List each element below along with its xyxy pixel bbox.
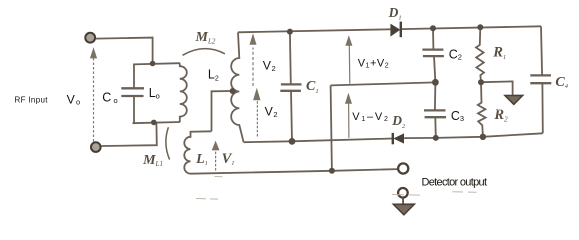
svg-text:V2: V2 xyxy=(263,59,276,73)
svg-text:V1+V2: V1+V2 xyxy=(358,57,389,69)
svg-text:Vo: Vo xyxy=(67,92,81,106)
svg-text:D2: D2 xyxy=(391,113,406,130)
svg-text:ML2: ML2 xyxy=(195,30,216,45)
svg-text:V1: V1 xyxy=(222,151,235,167)
svg-text:L2: L2 xyxy=(208,68,219,83)
svg-text:RF Input: RF Input xyxy=(15,96,49,105)
svg-text:Co: Co xyxy=(102,91,117,105)
svg-text:L1: L1 xyxy=(195,152,208,167)
svg-text:ML1: ML1 xyxy=(142,153,163,168)
svg-text:C2: C2 xyxy=(449,48,462,62)
svg-text:R2: R2 xyxy=(493,107,508,124)
svg-text:V1–V2: V1–V2 xyxy=(352,111,389,123)
svg-text:Lo: Lo xyxy=(149,86,160,101)
svg-text:V2: V2 xyxy=(265,104,278,118)
svg-text:C4: C4 xyxy=(555,75,568,90)
svg-text:R1: R1 xyxy=(492,44,506,60)
svg-text:C3: C3 xyxy=(451,109,464,123)
svg-text:C1: C1 xyxy=(306,79,319,95)
svg-text:Detector output: Detector output xyxy=(422,177,488,189)
svg-text:D1: D1 xyxy=(388,5,402,22)
